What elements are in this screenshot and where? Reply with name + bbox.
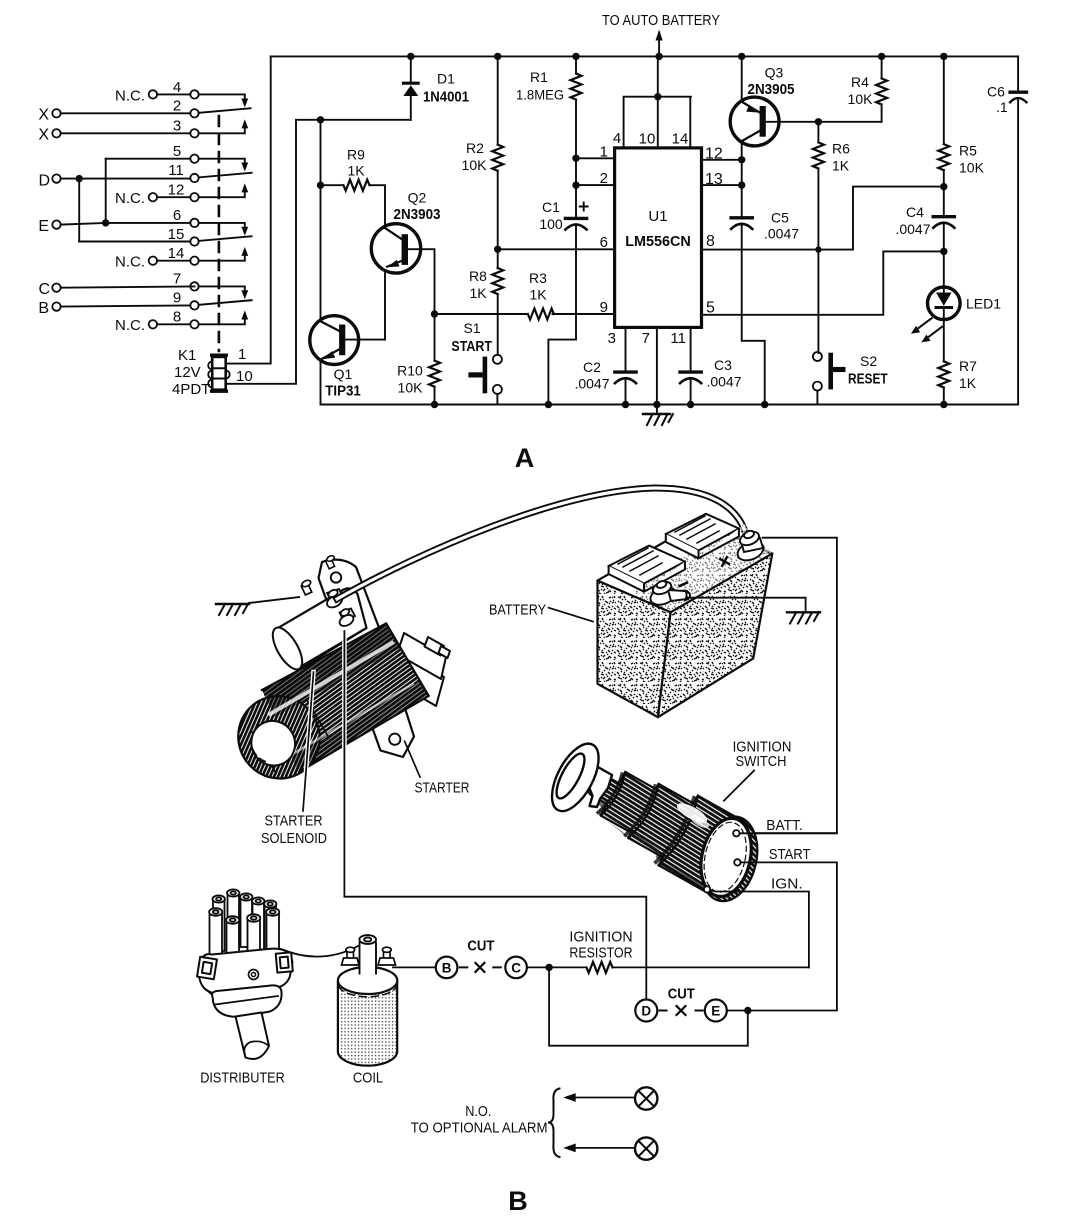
node pin 12 junction	[738, 156, 745, 163]
wire pin 8 line	[702, 187, 944, 250]
battery filler cap 2	[666, 514, 739, 559]
wire bottom ground bus	[321, 404, 1019, 406]
svg-text:12: 12	[168, 182, 185, 199]
coil side bolt left	[342, 947, 360, 965]
svg-text:14: 14	[672, 131, 689, 148]
wire pin 5 line	[702, 251, 944, 314]
capacitor C1 100	[539, 158, 587, 404]
svg-text:TIP31: TIP31	[325, 384, 361, 400]
op-amp U1 LM556CN box	[615, 148, 702, 328]
svg-text:C: C	[38, 281, 50, 298]
relay K1 coil	[172, 346, 253, 398]
label STARTER SOLENOID	[261, 672, 327, 847]
svg-text:S1: S1	[463, 320, 480, 336]
distributor cap base	[197, 949, 293, 999]
svg-text:4PDT: 4PDT	[172, 381, 210, 398]
svg-text:1K: 1K	[347, 163, 365, 179]
svg-text:N.C.: N.C.	[115, 88, 145, 105]
wire pin 9 line with resistor R3 1K	[435, 270, 615, 320]
ground symbol	[643, 405, 673, 426]
resistor R2 10K	[462, 56, 504, 249]
cut X mark left	[460, 963, 501, 972]
svg-text:2: 2	[600, 170, 608, 187]
wire D1 anode to K1 pin10 riser	[296, 119, 411, 121]
wire solenoid terminal to D circle	[342, 640, 347, 790]
svg-text:E: E	[38, 218, 49, 235]
resistor R8 1K	[469, 249, 503, 355]
svg-text:R4: R4	[851, 74, 869, 90]
svg-text:A: A	[515, 443, 535, 473]
relay contact group 4 pins 7,9,8	[38, 271, 251, 335]
switch S1 START	[451, 320, 501, 405]
svg-text:6: 6	[173, 207, 181, 224]
wire left vertical to K1 pin 1	[226, 56, 271, 363]
transistor Q3 2N3905	[730, 56, 881, 159]
flange top bolt	[325, 555, 335, 569]
node Q3 base / R6 junction	[815, 118, 822, 125]
solenoid cable terminal	[325, 588, 344, 610]
svg-text:C6: C6	[987, 84, 1005, 100]
svg-text:3: 3	[608, 330, 616, 347]
svg-text:2: 2	[173, 98, 181, 115]
svg-text:.0047: .0047	[764, 226, 799, 242]
svg-text:CUT: CUT	[467, 939, 494, 955]
svg-text:1: 1	[600, 144, 608, 161]
node top bus junctions	[407, 53, 947, 60]
battery cable	[337, 488, 748, 599]
node pin1 junction	[572, 155, 579, 162]
wire pin 1 stub	[576, 157, 615, 159]
capacitor C2 .0047	[574, 359, 636, 405]
ignition switch terminals	[704, 830, 741, 893]
svg-text:1K: 1K	[832, 158, 850, 174]
wire C to resistor	[527, 966, 587, 968]
svg-text:TO OPTIONAL ALARM: TO OPTIONAL ALARM	[411, 1120, 548, 1137]
svg-text:B: B	[442, 961, 452, 976]
svg-text:C4: C4	[906, 204, 924, 220]
coil side bolt right	[378, 947, 396, 965]
wire K1 pin 10 riser	[226, 120, 296, 384]
svg-text:10K: 10K	[959, 160, 985, 176]
key	[542, 737, 612, 819]
svg-text:R10: R10	[397, 363, 423, 379]
svg-text:C: C	[511, 961, 521, 976]
transistor Q1 TIP31	[310, 316, 385, 405]
svg-text:E: E	[711, 1004, 720, 1019]
label STARTER	[405, 741, 470, 796]
svg-text:1K: 1K	[959, 375, 977, 391]
svg-text:SOLENOID: SOLENOID	[261, 830, 327, 847]
wire U1 top pins 4,10,14	[613, 56, 691, 147]
svg-text:S2: S2	[860, 353, 877, 369]
starter drive end	[390, 633, 450, 706]
svg-text:N.O.: N.O.	[465, 1103, 491, 1120]
distributor lower body	[212, 985, 282, 1016]
svg-text:.0047: .0047	[574, 376, 609, 392]
ground chassis at battery	[787, 612, 820, 624]
relay K1 mechanical dashed line	[218, 116, 221, 351]
wire D to contact 15 riser	[78, 179, 80, 242]
node R2/R8/pin6 junction	[494, 246, 501, 253]
battery positive terminal	[735, 529, 766, 564]
node pin8/R6 crossing junction	[815, 246, 821, 252]
wire pin 6 line	[498, 248, 615, 250]
svg-text:R3: R3	[529, 270, 547, 286]
wire START	[727, 862, 837, 1010]
wire battery minus to ground	[686, 598, 806, 613]
wire pin 2 stub	[576, 184, 615, 186]
svg-text:B: B	[38, 300, 49, 317]
svg-text:Q2: Q2	[408, 190, 427, 206]
svg-text:R1: R1	[530, 69, 548, 85]
svg-text:LM556CN: LM556CN	[625, 234, 691, 250]
resistor R5 10K	[938, 56, 984, 186]
svg-text:11: 11	[168, 162, 184, 179]
battery minus mark	[680, 583, 688, 586]
capacitor C4 .0047	[895, 187, 954, 252]
svg-text:.1: .1	[996, 99, 1008, 115]
svg-text:1K: 1K	[469, 285, 487, 301]
relay contact group 2 pins 5,11,12	[38, 143, 251, 207]
relay contact group 1 pins 4,2,3	[38, 79, 250, 144]
svg-text:START: START	[769, 846, 811, 863]
svg-text:7: 7	[642, 330, 650, 347]
svg-text:8: 8	[706, 233, 715, 250]
wire battery plus to BATT terminal	[740, 538, 837, 834]
svg-text:C5: C5	[771, 210, 789, 226]
node C junction dot	[545, 964, 552, 971]
wire E to contact 5 riser	[105, 159, 107, 223]
svg-text:D: D	[641, 1004, 651, 1019]
resistor ignition resistor	[587, 962, 613, 973]
svg-text:C3: C3	[714, 357, 732, 373]
svg-text:COIL: COIL	[353, 1070, 383, 1087]
alarm lamp 2	[563, 1137, 657, 1159]
svg-text:STARTER: STARTER	[265, 813, 323, 830]
svg-text:10K: 10K	[398, 380, 424, 396]
svg-text:IGN.: IGN.	[771, 876, 803, 893]
svg-text:1K: 1K	[529, 287, 547, 303]
svg-text:10K: 10K	[848, 91, 874, 107]
starter motor body	[223, 623, 429, 793]
starter mounting flange	[319, 560, 415, 757]
svg-text:R7: R7	[959, 358, 977, 374]
resistor R6 1K	[813, 122, 850, 353]
node D1 anode branch	[317, 116, 324, 123]
svg-text:DISTRIBUTER: DISTRIBUTER	[200, 1070, 285, 1087]
node C4/pin5 junction	[940, 248, 947, 255]
node B circle	[436, 957, 458, 979]
svg-text:10K: 10K	[462, 157, 488, 173]
svg-text:D1: D1	[437, 71, 455, 87]
svg-text:RESET: RESET	[848, 372, 888, 388]
distributor shaft	[236, 1013, 270, 1060]
svg-text:X: X	[38, 127, 49, 144]
svg-text:C1: C1	[542, 199, 560, 215]
node pin2 junction	[572, 181, 579, 188]
svg-text:R6: R6	[832, 141, 850, 157]
svg-text:1N4001: 1N4001	[423, 90, 469, 106]
wire pin 13 stub	[702, 184, 742, 186]
node bottom bus junctions	[431, 401, 948, 408]
cut X mark right	[660, 1006, 703, 1015]
svg-text:SWITCH: SWITCH	[736, 753, 787, 770]
battery box	[598, 522, 773, 717]
switch S2 RESET	[813, 352, 888, 405]
svg-text:N.C.: N.C.	[115, 254, 145, 271]
distributor cap towers	[209, 889, 279, 970]
wire U1 bottom pins 3,7,11	[608, 327, 691, 404]
svg-text:9: 9	[173, 290, 181, 307]
svg-text:START: START	[451, 339, 492, 355]
battery negative terminal	[648, 579, 690, 607]
node E junction dot	[744, 1007, 751, 1014]
node D circle	[635, 1000, 657, 1022]
svg-text:N.C.: N.C.	[115, 190, 145, 207]
coil center tower	[359, 935, 376, 973]
svg-text:3: 3	[173, 118, 181, 135]
resistor R1 1.8MEG	[516, 56, 582, 154]
solenoid ground bolt	[301, 579, 312, 595]
node R5/C4 junction	[940, 183, 947, 190]
svg-text:R9: R9	[347, 147, 365, 163]
svg-text:4: 4	[173, 79, 181, 96]
svg-text:B: B	[508, 1186, 528, 1216]
svg-text:12V: 12V	[174, 364, 201, 381]
wire distributor to coil	[281, 945, 360, 957]
svg-text:D: D	[38, 173, 50, 190]
wire resistor to IGN corner	[614, 966, 809, 968]
wire bypass loop	[549, 967, 748, 1045]
svg-text:1: 1	[238, 346, 246, 363]
svg-text:BATTERY: BATTERY	[489, 602, 546, 619]
svg-text:Q3: Q3	[765, 65, 784, 81]
LED1	[911, 251, 1001, 342]
svg-text:.0047: .0047	[706, 374, 741, 390]
wire Q1 collector column	[320, 120, 322, 320]
svg-text:K1: K1	[178, 347, 196, 364]
node pin 13 junction	[738, 181, 745, 188]
wire IGN	[710, 890, 809, 967]
svg-text:U1: U1	[648, 208, 667, 225]
svg-text:10: 10	[639, 131, 656, 148]
ground chassis at starter	[216, 597, 299, 615]
wire pin 12 stub	[702, 159, 742, 161]
svg-text:9: 9	[600, 299, 608, 316]
svg-text:5: 5	[173, 143, 181, 160]
svg-text:IGNITION: IGNITION	[569, 929, 632, 946]
relay contact group 3 pins 6,15,14	[38, 207, 251, 271]
wire top supply bus	[271, 55, 1018, 57]
svg-text:15: 15	[168, 226, 185, 243]
svg-text:.0047: .0047	[895, 221, 930, 237]
label BATTERY	[489, 602, 593, 622]
svg-text:X: X	[38, 107, 49, 124]
transistor Q2 2N3903	[371, 190, 440, 340]
svg-text:2N3903: 2N3903	[394, 207, 441, 223]
wire BATT	[740, 832, 837, 834]
wire battery arrow	[658, 40, 660, 56]
svg-text:N.C.: N.C.	[115, 317, 145, 334]
alarm lamp 1	[563, 1087, 657, 1109]
svg-text:R8: R8	[469, 268, 487, 284]
svg-text:Q1: Q1	[334, 366, 353, 382]
svg-text:R2: R2	[466, 140, 484, 156]
coil body	[338, 967, 397, 1066]
svg-text:14: 14	[168, 245, 185, 262]
node C circle	[505, 957, 527, 979]
svg-text:8: 8	[173, 309, 181, 326]
svg-text:STARTER: STARTER	[415, 780, 470, 797]
svg-text:CUT: CUT	[668, 987, 695, 1003]
svg-text:1.8MEG: 1.8MEG	[516, 87, 564, 103]
svg-text:RESISTOR: RESISTOR	[569, 945, 632, 962]
label U1 right pin numbers	[705, 146, 723, 317]
svg-text:BATT.: BATT.	[766, 817, 802, 834]
battery filler cap 1	[609, 546, 685, 592]
capacitor C3 .0047	[680, 357, 742, 405]
capacitor C6 .1	[987, 56, 1027, 404]
wire coil to B	[393, 966, 436, 968]
svg-text:LED1: LED1	[966, 296, 1001, 312]
svg-text:R5: R5	[959, 143, 977, 159]
svg-text:10: 10	[236, 368, 253, 385]
svg-text:6: 6	[600, 234, 608, 251]
resistor R4 10K	[848, 56, 888, 121]
resistor R7 1K	[938, 320, 977, 405]
resistor R9 1K	[321, 147, 386, 227]
resistor R10 10K	[397, 314, 440, 405]
label IGNITION SWITCH	[724, 739, 791, 801]
solenoid switch terminal	[338, 608, 356, 629]
capacitor C5 .0047	[731, 160, 799, 405]
svg-text:100: 100	[539, 216, 563, 232]
label U1 left pin numbers	[600, 144, 608, 317]
battery plus mark	[718, 555, 732, 569]
node Q2 base / R3 junction	[431, 310, 438, 317]
node R9 branch	[317, 182, 324, 189]
svg-text:7: 7	[173, 271, 181, 288]
svg-text:4: 4	[613, 130, 621, 147]
svg-text:TO AUTO BATTERY: TO AUTO BATTERY	[602, 12, 720, 29]
svg-text:11: 11	[670, 330, 686, 347]
brace	[548, 1089, 560, 1158]
node E circle	[705, 1000, 727, 1022]
svg-text:C2: C2	[583, 359, 601, 375]
diode D1 1N4001	[403, 56, 469, 119]
ignition switch body	[586, 772, 765, 907]
starter solenoid	[267, 588, 367, 673]
